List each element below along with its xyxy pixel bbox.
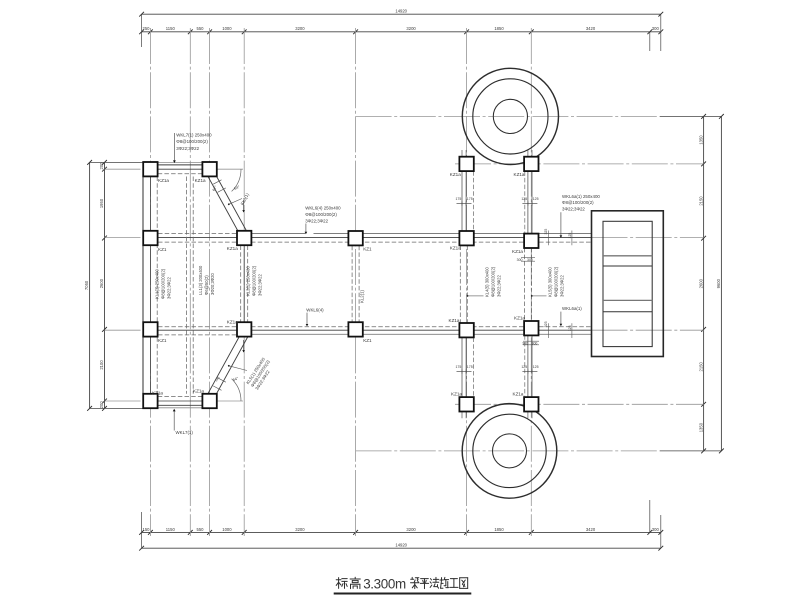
svg-text:1150: 1150 bbox=[166, 26, 176, 31]
top tank inner circle bbox=[493, 99, 527, 133]
vertical grid line axis 2 x=190 bbox=[189, 28, 191, 536]
tick marks on beam stub to stair shaft row B bbox=[547, 231, 549, 246]
svg-text:550: 550 bbox=[197, 527, 205, 532]
title hanzi gong bbox=[450, 578, 457, 580]
svg-text:125: 125 bbox=[533, 197, 539, 201]
top dimension extension stubs bbox=[141, 14, 143, 47]
vertical grid line axis 6 x=467 bbox=[466, 28, 468, 536]
svg-text:175: 175 bbox=[455, 365, 461, 369]
column KZ1a axis6-rowC bbox=[459, 323, 473, 337]
leader for KL3(1) bbox=[229, 199, 242, 205]
svg-text:300: 300 bbox=[652, 26, 660, 31]
top segment dimension line bbox=[142, 31, 661, 33]
svg-text:Φ8@100/200(2): Φ8@100/200(2) bbox=[554, 266, 559, 297]
svg-text:KL2(1): KL2(1) bbox=[360, 290, 365, 303]
row B beam WKL6 dashed edges inside left block bbox=[158, 233, 237, 235]
svg-text:1350: 1350 bbox=[698, 135, 703, 145]
label block KL5(1) rotated along diagonal bbox=[245, 356, 275, 391]
column KZ1a axis3-rowA bbox=[202, 162, 216, 176]
tick marks on beam stub to stair shaft row C bbox=[547, 323, 549, 338]
top tank outer circle bbox=[462, 68, 558, 164]
interior beam LL1 dashed pair x=190 bbox=[185, 177, 187, 394]
svg-text:300: 300 bbox=[527, 258, 533, 262]
svg-text:3Φ22;3Φ22: 3Φ22;3Φ22 bbox=[497, 275, 502, 297]
bottom tank inner circle bbox=[493, 434, 527, 468]
svg-text:KZ1: KZ1 bbox=[363, 338, 372, 343]
svg-text:1350: 1350 bbox=[698, 422, 703, 432]
horizontal grid line row A left y=169 bbox=[105, 168, 143, 170]
svg-text:14920: 14920 bbox=[395, 543, 407, 548]
stair shaft landing line 4 bbox=[603, 311, 652, 313]
column KZ1 axis5-rowC bbox=[348, 322, 362, 336]
svg-text:3Φ22;3Φ22: 3Φ22;3Φ22 bbox=[560, 275, 565, 297]
leader for KL4(5) bbox=[468, 295, 484, 297]
svg-text:KL4(5) 300x400: KL4(5) 300x400 bbox=[485, 267, 490, 297]
leader for KL5(1) bbox=[229, 366, 247, 371]
row C beam WKL6(4) solid bottom edge bbox=[244, 333, 591, 335]
title hanzi liang bbox=[411, 578, 414, 580]
svg-text:WKL6a(1) 250x400: WKL6a(1) 250x400 bbox=[562, 194, 600, 199]
tick marks on lower diagonal bbox=[213, 386, 221, 390]
stair shaft landing line 2 bbox=[603, 265, 652, 267]
svg-text:3200: 3200 bbox=[406, 527, 416, 532]
svg-text:550: 550 bbox=[197, 26, 205, 31]
column KZ1a axis7-rowA bbox=[524, 157, 538, 171]
small arrow on axis 4 above lower diagonal bbox=[243, 340, 245, 351]
horizontal grid line row C y=330 bbox=[105, 329, 150, 331]
svg-text:125: 125 bbox=[521, 365, 527, 369]
svg-text:175: 175 bbox=[467, 365, 473, 369]
svg-text:Φ8@100/200(2): Φ8@100/200(2) bbox=[491, 266, 496, 297]
horizontal grid line row A right y=164 bbox=[455, 163, 704, 165]
svg-text:KL1(3) 250x400: KL1(3) 250x400 bbox=[155, 269, 160, 299]
horizontal grid line row D left y=401 bbox=[105, 400, 143, 402]
column KZ1a axis7-rowD bbox=[524, 397, 538, 411]
annotation KL2(1) rotated on axis 4 bbox=[246, 265, 263, 296]
svg-text:325: 325 bbox=[544, 321, 548, 327]
svg-text:14920: 14920 bbox=[395, 9, 407, 14]
svg-text:300: 300 bbox=[517, 258, 523, 262]
annotation WKL6(4) row B with leader bbox=[305, 224, 307, 233]
angle arc at lower diagonal bbox=[232, 379, 241, 401]
svg-text:Φ8@100/200(2): Φ8@100/200(2) bbox=[562, 200, 594, 205]
svg-text:1150: 1150 bbox=[166, 527, 176, 532]
svg-text:1000: 1000 bbox=[222, 26, 232, 31]
svg-text:2150: 2150 bbox=[698, 361, 703, 371]
svg-text:WKL6(4): WKL6(4) bbox=[306, 307, 324, 312]
column KZ1a axis3-rowD bbox=[202, 394, 216, 408]
vertical grid line axis 5 x=356 bbox=[355, 28, 357, 536]
right overall dimension line 9600 bbox=[720, 116, 722, 451]
vertical grid line axis 3 x=210 bbox=[209, 28, 211, 536]
column KZ1a axis7-rowB bbox=[524, 234, 538, 248]
svg-text:3.300m: 3.300m bbox=[363, 577, 406, 592]
bottom tank middle circle bbox=[473, 414, 546, 487]
angle arc at upper diagonal bbox=[232, 169, 241, 191]
left dimension connector lines bbox=[90, 161, 144, 163]
svg-text:3Φ22;3Φ22: 3Φ22;3Φ22 bbox=[562, 207, 585, 212]
tick marks on upper diagonal bbox=[213, 180, 221, 184]
svg-text:125: 125 bbox=[568, 233, 572, 239]
vertical grid line axis 4 x=244 bbox=[243, 28, 245, 536]
svg-text:3Φ22;3Φ22: 3Φ22;3Φ22 bbox=[167, 277, 172, 299]
svg-text:KZ1a: KZ1a bbox=[450, 172, 461, 177]
svg-text:2600: 2600 bbox=[698, 278, 703, 288]
left segment dimension line bbox=[104, 162, 106, 408]
svg-text:KZ1a: KZ1a bbox=[514, 172, 525, 177]
svg-text:Φ8@100/200(2): Φ8@100/200(2) bbox=[252, 265, 257, 296]
svg-text:Φ6@50(2): Φ6@50(2) bbox=[204, 275, 209, 295]
svg-text:KZ1: KZ1 bbox=[363, 247, 372, 252]
title hanzi biao bbox=[338, 578, 340, 589]
tick marks 300/300 below axis7 row B column bbox=[521, 257, 535, 259]
row B beam dashed bottom edge bbox=[251, 241, 592, 243]
bottom tank outer circle bbox=[462, 404, 557, 499]
annotation KL1(3) rotated on axis 1 bbox=[155, 268, 172, 299]
svg-text:KZ1a: KZ1a bbox=[451, 392, 462, 397]
svg-text:Φ8@100/200(2): Φ8@100/200(2) bbox=[176, 139, 208, 144]
svg-text:200: 200 bbox=[99, 162, 104, 170]
column KZ1 axis1-rowB bbox=[143, 231, 157, 245]
svg-text:1000: 1000 bbox=[222, 527, 232, 532]
column KZ1 axis5-rowB bbox=[348, 231, 362, 245]
svg-text:9600: 9600 bbox=[716, 278, 721, 288]
stair shaft landing line 1 bbox=[603, 255, 652, 257]
annotation KL5(5) rotated on axis 7 bbox=[548, 266, 565, 297]
beam stubs into tanks on axes 6-7 bbox=[461, 150, 463, 157]
left block bottom perimeter beam bbox=[143, 407, 217, 409]
vertical beam KL4 on axis 6 rows B-C bbox=[459, 246, 461, 324]
svg-text:300: 300 bbox=[532, 342, 538, 346]
column KZ1a axis6-rowB bbox=[459, 231, 473, 245]
svg-text:KZ1a: KZ1a bbox=[450, 246, 461, 251]
svg-text:KZ1a: KZ1a bbox=[152, 391, 163, 396]
row B beam WKL6 solid top edge bbox=[244, 233, 305, 235]
column KZ1a axis1-rowA bbox=[143, 162, 157, 176]
svg-text:KZ1a: KZ1a bbox=[514, 316, 525, 321]
svg-text:3Φ20;3Φ20: 3Φ20;3Φ20 bbox=[210, 273, 215, 295]
svg-text:KZ1: KZ1 bbox=[158, 247, 167, 252]
stair shaft inner wall rectangle bbox=[603, 221, 652, 346]
svg-text:7050: 7050 bbox=[84, 280, 89, 290]
tick marks 175/175 on axis 6 lower bbox=[457, 371, 472, 373]
vertical beam on axis 7 rows C-D bbox=[527, 335, 529, 397]
svg-text:WKL7(1): WKL7(1) bbox=[176, 430, 194, 435]
left block top perimeter beam WKL7 bbox=[143, 162, 217, 164]
svg-text:300: 300 bbox=[652, 527, 660, 532]
annotation KL4(5) rotated on axis 6 bbox=[485, 266, 502, 297]
svg-text:3420: 3420 bbox=[586, 527, 596, 532]
svg-text:KZ1a: KZ1a bbox=[512, 249, 523, 254]
column KZ1 axis1-rowC bbox=[143, 322, 157, 336]
top tank middle circle bbox=[473, 79, 548, 154]
column KZ1a axis6-rowD bbox=[459, 397, 473, 411]
bottom overall dimension line 14920 bbox=[142, 547, 661, 549]
svg-text:WKL6(4) 250x400: WKL6(4) 250x400 bbox=[305, 206, 341, 211]
svg-text:WKL6a(1): WKL6a(1) bbox=[562, 306, 582, 311]
svg-text:KZ1: KZ1 bbox=[158, 338, 167, 343]
vertical grid line axis 1 x=150 bbox=[149, 28, 151, 536]
svg-text:175: 175 bbox=[455, 197, 461, 201]
row C beam dashed edges inside left block bbox=[158, 326, 237, 328]
title hanzi gao bbox=[350, 578, 360, 580]
tick marks 175/175 on axis 6 upper bbox=[457, 203, 472, 205]
svg-text:KZ1a: KZ1a bbox=[195, 178, 206, 183]
svg-text:Φ8@100/200(2): Φ8@100/200(2) bbox=[161, 268, 166, 299]
column KZ1a axis4-rowB bbox=[237, 231, 251, 245]
svg-text:2150: 2150 bbox=[698, 196, 703, 206]
svg-text:3Φ22;3Φ22: 3Φ22;3Φ22 bbox=[176, 146, 199, 151]
svg-text:2600: 2600 bbox=[99, 278, 104, 288]
tick marks 125/125 on axis 7 upper bbox=[522, 203, 537, 205]
row C beam dashed top edge bbox=[251, 326, 592, 328]
right segment dimension line bbox=[703, 116, 705, 451]
leader for KL5(5) bbox=[532, 295, 547, 297]
vertical grid line axis 7 x=531 bbox=[530, 28, 532, 536]
svg-text:KZ1a: KZ1a bbox=[227, 246, 238, 251]
svg-text:200: 200 bbox=[99, 401, 104, 409]
horizontal grid line row D right y=404 bbox=[455, 403, 704, 405]
vertical beam on axis 5 between rows B-C bbox=[351, 246, 353, 323]
stair shaft outer wall rectangle bbox=[592, 211, 664, 357]
tick marks 300/300 above axis7 row C column bbox=[523, 340, 539, 342]
svg-text:KZ1a: KZ1a bbox=[193, 389, 204, 394]
svg-text:1850: 1850 bbox=[494, 527, 504, 532]
svg-text:3Φ22;3Φ22: 3Φ22;3Φ22 bbox=[258, 274, 263, 296]
tick marks 125/125 on axis 7 lower bbox=[522, 371, 537, 373]
svg-text:1950: 1950 bbox=[99, 198, 104, 208]
svg-text:3200: 3200 bbox=[295, 527, 305, 532]
vertical beam on axis 7 rows A-B bbox=[527, 171, 529, 233]
horizontal grid line through bottom tank centre y=451 bbox=[356, 450, 660, 452]
svg-text:250: 250 bbox=[143, 26, 151, 31]
vertical beam on axis 6 rows A-B bbox=[461, 171, 463, 231]
title hanzi tu bbox=[460, 577, 468, 579]
vertical beam on axis 6 rows C-D bbox=[461, 338, 463, 398]
svg-text:KL2(1) 250x400: KL2(1) 250x400 bbox=[246, 266, 251, 296]
title underline bbox=[334, 592, 472, 594]
svg-text:125: 125 bbox=[521, 197, 527, 201]
vertical beam KL2 on axis 4 between rows B-C bbox=[240, 246, 242, 323]
left overall dimension line 7050 bbox=[89, 162, 91, 408]
svg-text:3Φ22;3Φ22: 3Φ22;3Φ22 bbox=[305, 218, 328, 223]
annotation LL1(3) rotated on axis 2 bbox=[198, 265, 215, 295]
column KZ1a axis6-rowA bbox=[459, 157, 473, 171]
title hanzi fa bbox=[430, 579, 431, 580]
svg-text:LL1(3) 200x400: LL1(3) 200x400 bbox=[198, 265, 203, 295]
diagonal beam KL5 lower bbox=[213, 337, 247, 399]
svg-text:300: 300 bbox=[522, 342, 528, 346]
bottom dimension extension stubs bbox=[141, 512, 143, 548]
svg-text:Φ8@100/200(2): Φ8@100/200(2) bbox=[305, 212, 337, 217]
stair shaft landing line 3 bbox=[603, 299, 652, 301]
svg-text:KZ1a: KZ1a bbox=[158, 178, 169, 183]
annotation WKL7(1) top-left with leader bbox=[173, 133, 175, 161]
svg-text:KZ1a: KZ1a bbox=[449, 318, 460, 323]
diagonal beam KL3 upper bbox=[213, 171, 247, 233]
horizontal grid line row B y=238 bbox=[105, 237, 150, 239]
column KZ1a axis4-rowC bbox=[237, 322, 251, 336]
svg-text:175: 175 bbox=[467, 197, 473, 201]
small arrow on axis 4 below upper diagonal bbox=[243, 200, 245, 211]
svg-text:KZ1a: KZ1a bbox=[227, 320, 238, 325]
svg-text:KZ1a: KZ1a bbox=[513, 392, 524, 397]
vertical beam KL5 on axis 7 rows B-C bbox=[524, 248, 526, 321]
title hanzi shi bbox=[441, 578, 443, 580]
title hanzi ping bbox=[421, 578, 429, 580]
svg-text:125: 125 bbox=[568, 325, 572, 331]
svg-text:3200: 3200 bbox=[406, 26, 416, 31]
svg-text:3420: 3420 bbox=[586, 26, 596, 31]
annotation WKL7(1) bottom-left with leader bbox=[173, 410, 175, 431]
svg-text:3200: 3200 bbox=[295, 26, 305, 31]
svg-text:2100: 2100 bbox=[99, 360, 104, 370]
bottom segment dimension line bbox=[142, 531, 661, 533]
svg-text:1850: 1850 bbox=[494, 26, 504, 31]
column KZ1a axis1-rowD bbox=[143, 394, 157, 408]
column KZ1a axis7-rowC bbox=[524, 321, 538, 335]
svg-text:WKL7(1) 250x400: WKL7(1) 250x400 bbox=[176, 133, 212, 138]
svg-text:125: 125 bbox=[533, 365, 539, 369]
left block left perimeter beam KL1 bbox=[142, 163, 144, 408]
svg-text:KL5(5) 300x400: KL5(5) 300x400 bbox=[548, 267, 553, 297]
svg-text:150: 150 bbox=[143, 527, 151, 532]
svg-text:325: 325 bbox=[544, 229, 548, 235]
top overall dimension line 14920 bbox=[142, 13, 661, 15]
horizontal grid line through top tank centre y=116 bbox=[356, 115, 660, 117]
